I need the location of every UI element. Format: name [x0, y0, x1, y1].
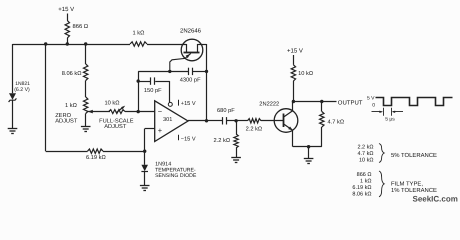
brace 5%	[379, 144, 384, 163]
wire op-amp output	[188, 120, 207, 122]
resistor 8.06k	[84, 64, 88, 81]
capacitor 150pF	[151, 77, 155, 84]
op-amp comp pin circle	[168, 102, 172, 106]
UJT B1 lead	[197, 44, 199, 52]
svg-text:(6.2 V): (6.2 V)	[14, 87, 30, 93]
wire emitter row	[293, 146, 322, 148]
wire to ground	[308, 147, 310, 159]
node collector junction	[292, 100, 295, 103]
svg-text:ADJUST: ADJUST	[55, 119, 78, 125]
wire node to 2.2k	[236, 120, 247, 122]
wire 1k to UJT B2	[147, 44, 187, 46]
svg-text:SeekIC.com: SeekIC.com	[413, 195, 458, 204]
wire to comp pin	[169, 81, 171, 102]
capacitor 680pF	[223, 117, 227, 124]
ground G3	[140, 186, 150, 191]
svg-text:5% TOLERANCE: 5% TOLERANCE	[391, 152, 437, 159]
svg-text:301: 301	[163, 117, 172, 123]
node rail-B junction	[66, 42, 69, 45]
resistor 2.2k series	[248, 119, 262, 123]
wire to 4.7k	[321, 102, 323, 112]
ground G5	[304, 159, 314, 164]
transistor Q2 2N2222 circle	[274, 109, 298, 133]
Q2 collector lead	[283, 111, 293, 118]
resistor 4.7k	[320, 112, 324, 128]
wire to 680pF	[207, 120, 223, 122]
svg-text:+15 V: +15 V	[287, 48, 303, 55]
svg-text:OUTPUT: OUTPUT	[338, 100, 363, 107]
wire 2.2k to base	[261, 120, 283, 122]
Q2 emitter lead	[283, 124, 293, 131]
ground G2	[81, 127, 91, 132]
svg-text:1 kΩ: 1 kΩ	[360, 179, 371, 185]
svg-text:−: −	[158, 107, 163, 116]
wire 150pF left	[138, 81, 150, 83]
node rail-A junction	[44, 42, 47, 45]
zener diode bar	[9, 98, 17, 102]
wire 8.06k to pot	[85, 81, 87, 98]
wire top rail	[13, 44, 131, 46]
node inv input junction	[137, 110, 140, 113]
svg-text:2.2 kΩ: 2.2 kΩ	[357, 145, 373, 151]
resistor 1k top	[130, 42, 147, 46]
svg-text:5 V: 5 V	[367, 95, 375, 101]
wire 680pF to node	[227, 120, 236, 122]
ground G1	[8, 129, 18, 134]
svg-text:5 μs: 5 μs	[385, 116, 395, 122]
svg-text:6.19 kΩ: 6.19 kΩ	[86, 154, 106, 161]
rheostat 10k full-scale	[109, 110, 125, 114]
wire 4300pF right	[192, 71, 206, 73]
svg-text:10 kΩ: 10 kΩ	[359, 158, 374, 164]
op-amp -15V tick	[178, 135, 180, 140]
UJT emitter lead	[170, 53, 191, 71]
capacitor 4300pF	[189, 68, 193, 75]
wire zener to ground	[12, 100, 14, 128]
svg-text:0: 0	[372, 103, 375, 109]
svg-text:866 Ω: 866 Ω	[357, 172, 372, 178]
svg-text:4.7 kΩ: 4.7 kΩ	[357, 151, 373, 157]
waveform tick right	[391, 108, 393, 116]
waveform arrow right head	[392, 111, 396, 113]
svg-text:1% TOLERANCE: 1% TOLERANCE	[391, 187, 437, 194]
resistor 2.2k shunt	[234, 134, 238, 148]
diode 1N914 bar	[141, 171, 148, 173]
svg-text:1 kΩ: 1 kΩ	[65, 102, 77, 109]
Q2 emitter arrow	[288, 126, 293, 130]
svg-text:+: +	[158, 126, 163, 135]
waveform arrow left shaft	[372, 111, 382, 113]
svg-text:+15 V: +15 V	[58, 6, 74, 13]
UJT B2 lead	[186, 44, 188, 52]
wire 10k to collector node	[293, 81, 295, 102]
pot wiper arrow	[88, 110, 93, 114]
rheostat arrow head	[121, 106, 125, 110]
resistor 866 ohm	[65, 21, 69, 39]
svg-text:FILM TYPE,: FILM TYPE,	[391, 180, 423, 187]
svg-text:10 kΩ: 10 kΩ	[298, 70, 313, 77]
wire to 6.19k	[46, 151, 88, 153]
svg-text:8.06 kΩ: 8.06 kΩ	[352, 192, 371, 198]
node B1 junction	[205, 70, 208, 73]
Q2 base bar	[283, 114, 285, 128]
waveform arrow right shaft	[393, 111, 403, 113]
svg-text:2N2646: 2N2646	[180, 28, 202, 35]
wire 4300pF left	[138, 71, 188, 73]
wire wiper to 10k	[88, 111, 110, 113]
svg-text:2.2 kΩ: 2.2 kΩ	[246, 126, 263, 133]
node diode junction	[143, 150, 146, 153]
node emitter-ground junction	[307, 145, 310, 148]
svg-text:680 pF: 680 pF	[217, 108, 235, 114]
diode 1N914 triangle	[141, 165, 148, 171]
ground G4	[231, 158, 241, 163]
svg-text:10 kΩ: 10 kΩ	[105, 100, 120, 107]
node 4.7k junction	[320, 100, 323, 103]
op-amp U1 301 triangle	[155, 101, 188, 142]
svg-text:2.2 kΩ: 2.2 kΩ	[214, 137, 231, 144]
waveform arrow left head	[379, 111, 383, 113]
wire left branch vertical	[45, 44, 47, 151]
wire left vertical to zener	[12, 44, 14, 93]
waveform trace	[376, 98, 453, 106]
resistor 10k collector	[291, 65, 295, 81]
node output-B1 junction	[205, 119, 208, 122]
wire collector to output	[293, 101, 336, 103]
wire 150pF right	[155, 81, 170, 83]
wire rail to 8.06k	[85, 44, 87, 64]
wire emitter down	[292, 130, 294, 146]
svg-text:+15 V: +15 V	[181, 101, 196, 107]
potentiometer R zero-adjust 1k body	[84, 97, 88, 114]
wire resistor to rail	[67, 38, 69, 44]
wire pot to ground	[85, 114, 87, 127]
wire 6.19k to node	[103, 151, 145, 153]
svg-text:150 pF: 150 pF	[144, 88, 162, 94]
brace 1%	[379, 171, 384, 197]
svg-text:4.7 kΩ: 4.7 kΩ	[328, 118, 345, 125]
svg-text:866 Ω: 866 Ω	[73, 23, 89, 30]
rheostat arrow shaft	[116, 107, 123, 113]
node 2.2k junction	[234, 119, 237, 122]
wire node down	[236, 121, 238, 134]
wire +15V lead	[67, 14, 69, 21]
svg-text:8.06 kΩ: 8.06 kΩ	[62, 70, 82, 77]
wire non-inv input	[145, 128, 155, 130]
svg-text:6.19 kΩ: 6.19 kΩ	[352, 185, 371, 191]
wire 4.7k to emitter row	[321, 127, 323, 147]
resistor 6.19k	[88, 149, 104, 153]
wire caps vertical	[138, 71, 140, 111]
wire to 1N914	[144, 129, 146, 165]
svg-text:−15 V: −15 V	[181, 137, 196, 143]
wire to op-amp inv input	[125, 111, 155, 113]
node rail-C junction	[84, 42, 87, 45]
wire diode to ground	[144, 171, 146, 185]
zener diode D1 1N821 triangle	[9, 93, 16, 100]
svg-text:2N2222: 2N2222	[259, 102, 279, 108]
svg-text:SENSING DIODE: SENSING DIODE	[155, 173, 197, 179]
waveform tick left	[383, 108, 385, 116]
wire B1 vertical to output	[206, 44, 208, 121]
wire 2.2k to ground	[236, 148, 238, 157]
wire B1 out	[197, 44, 206, 46]
svg-text:4300 pF: 4300 pF	[180, 77, 201, 83]
wire collector up	[292, 102, 294, 111]
wire +15V lead right	[293, 55, 295, 65]
svg-text:1 kΩ: 1 kΩ	[133, 30, 145, 37]
node 150pF junction	[137, 79, 140, 82]
op-amp +15V tick	[178, 100, 180, 106]
UJT base bar	[184, 52, 200, 54]
svg-text:ADJUST: ADJUST	[104, 124, 127, 130]
transistor Q1 2N2646 circle	[181, 39, 203, 61]
UJT emitter arrow	[186, 54, 191, 58]
node emitter junction	[168, 70, 171, 73]
